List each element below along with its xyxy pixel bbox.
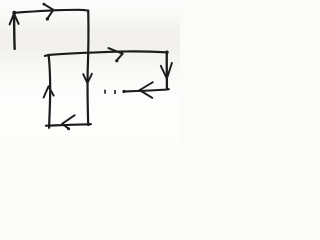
junction blob at third horizontal left end bbox=[122, 90, 125, 93]
wire: right vertical segment bbox=[166, 52, 168, 89]
arrowhead up on lower-left vertical bbox=[44, 86, 54, 97]
ellipsis dot 1 bbox=[104, 90, 106, 93]
arrowhead down on right vertical bbox=[161, 63, 172, 79]
ellipsis dot 2 bbox=[114, 91, 116, 94]
wire: second horizontal segment bbox=[45, 51, 167, 55]
arrowhead left on third horizontal bbox=[140, 82, 153, 90]
arrowhead up on left vertical bbox=[10, 14, 19, 25]
junction blob top-left corner bbox=[12, 11, 16, 15]
wire: long middle vertical segment bbox=[86, 11, 89, 125]
wire: top horizontal segment bbox=[14, 10, 88, 13]
junction blob at bottom-right corner bbox=[87, 123, 90, 126]
junction blob at second horizontal left corner bbox=[47, 54, 50, 57]
wire: lower-left vertical segment bbox=[49, 55, 50, 127]
junction blob at right vertical top bbox=[165, 51, 169, 55]
arrowhead down on middle vertical bbox=[83, 74, 92, 83]
wire: left vertical segment bbox=[13, 13, 16, 49]
wire: third horizontal segment (right part) bbox=[124, 89, 169, 91]
arrowhead right on top horizontal bbox=[44, 4, 53, 10]
arrowhead right on second horizontal bbox=[108, 48, 122, 54]
arrowhead left on bottom horizontal bbox=[62, 115, 74, 124]
wire: bottom horizontal segment bbox=[46, 124, 91, 126]
